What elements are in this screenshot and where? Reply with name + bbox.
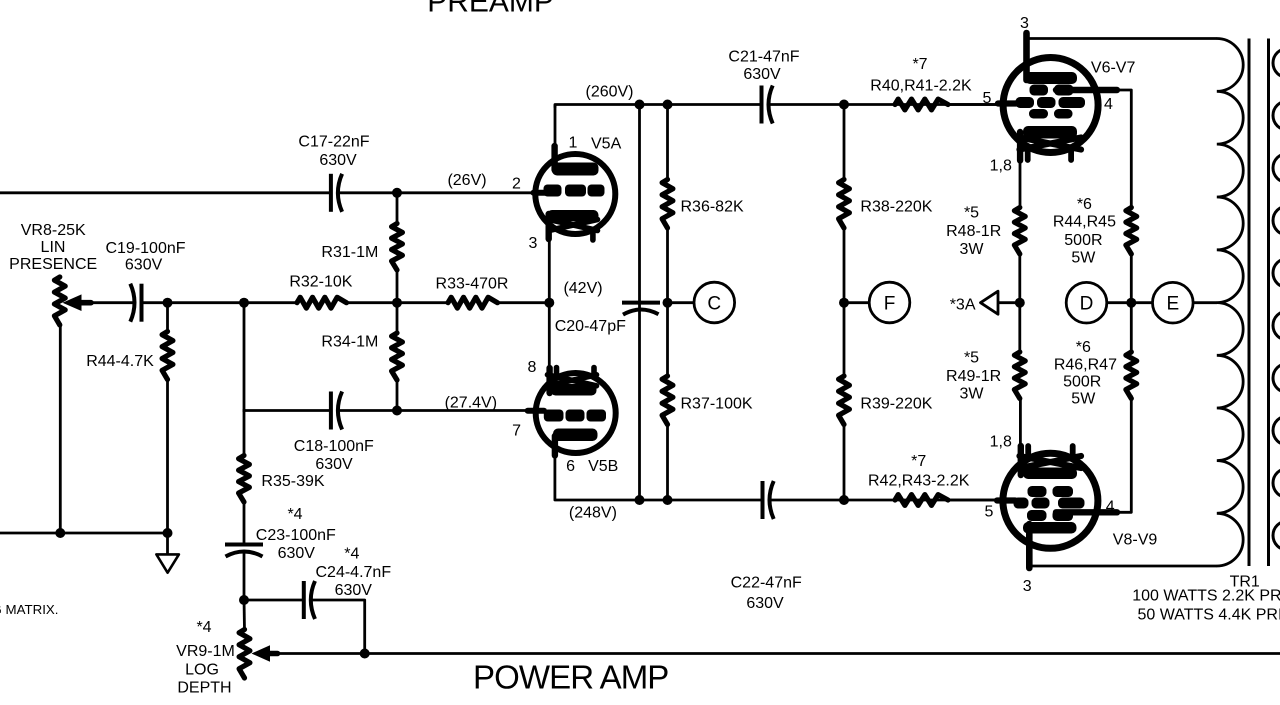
wire: V6V7 screen to rail x=1131 bbox=[1115, 90, 1131, 209]
svg-text:7: 7 bbox=[512, 422, 521, 439]
svg-text:C19-100nF: C19-100nF bbox=[105, 240, 185, 257]
svg-text:C23-100nF: C23-100nF bbox=[256, 527, 336, 544]
junction dot at R31 top node (397,193) bbox=[392, 188, 402, 198]
junction dot (667.5,302.7) bbox=[663, 298, 673, 308]
svg-text:630V: 630V bbox=[125, 257, 163, 274]
wire: E to transformer centre tap bbox=[1193, 301, 1217, 304]
svg-text:C: C bbox=[707, 293, 721, 314]
wire: F node stub bbox=[844, 301, 870, 304]
svg-text:F: F bbox=[884, 293, 896, 314]
svg-text:1,8: 1,8 bbox=[990, 158, 1012, 175]
wire: R44 down to ground bus bbox=[166, 378, 169, 534]
potentiometer VR8 25K LIN PRESENCE body bbox=[54, 277, 65, 325]
svg-text:630V: 630V bbox=[278, 545, 316, 562]
resistor R33-470R bbox=[448, 297, 498, 308]
svg-text:(42V): (42V) bbox=[563, 280, 602, 297]
wire: VR8 wiper to C19 bbox=[88, 301, 135, 304]
wire: 248V rail right of C22 bbox=[770, 499, 1002, 502]
junction dot (397,302.7) bbox=[392, 298, 402, 308]
junction dot (1019.8,302.7) bbox=[1015, 298, 1025, 308]
wire: 248V rail left of C22 bbox=[639, 499, 763, 502]
junction dot (364.7,653.5) bbox=[360, 649, 370, 659]
svg-text:R38-220K: R38-220K bbox=[860, 198, 932, 215]
svg-text:1: 1 bbox=[569, 135, 578, 152]
resistor R40,R41-2.2K bbox=[895, 99, 948, 110]
svg-text:R33-470R: R33-470R bbox=[436, 276, 509, 293]
pentode V6-V7 bbox=[998, 33, 1117, 161]
svg-text:R37-100K: R37-100K bbox=[681, 395, 753, 412]
svg-text:*4: *4 bbox=[344, 546, 359, 563]
resistor R44,R45-500R 5W bbox=[1126, 208, 1137, 255]
wire: R37 to 248V rail bbox=[666, 423, 669, 501]
triode V5A bbox=[534, 105, 616, 241]
svg-text:G MATRIX.: G MATRIX. bbox=[0, 602, 58, 617]
svg-text:4: 4 bbox=[1104, 96, 1113, 113]
wire: VR9 node to C24 bbox=[244, 599, 304, 602]
svg-text:PRESENCE: PRESENCE bbox=[9, 256, 97, 273]
resistor R38-220K bbox=[839, 180, 850, 229]
resistor R44-4.7K bbox=[162, 332, 173, 380]
wire: D to E through screen rail bbox=[1107, 301, 1153, 304]
resistor R39-220K bbox=[839, 376, 850, 425]
wire: R42 to V8V9 grid bbox=[948, 499, 999, 502]
resistor R35-39K bbox=[239, 456, 250, 503]
svg-text:R31-1M: R31-1M bbox=[321, 244, 378, 261]
junction dot (639.5,500) bbox=[635, 495, 645, 505]
svg-text:R35-39K: R35-39K bbox=[261, 473, 324, 490]
wire: vertical rail x=667.5 top bbox=[666, 105, 669, 182]
wire: R40 to V6V7 grid bbox=[948, 103, 1000, 106]
svg-text:(248V): (248V) bbox=[569, 505, 617, 522]
junction dot (667.5,104.5) bbox=[663, 100, 673, 110]
svg-text:VR8-25K: VR8-25K bbox=[21, 222, 86, 239]
svg-text:8: 8 bbox=[528, 359, 537, 376]
svg-text:C18-100nF: C18-100nF bbox=[294, 438, 374, 455]
svg-text:*3A: *3A bbox=[950, 297, 976, 314]
svg-text:V5A: V5A bbox=[591, 136, 622, 153]
svg-text:DEPTH: DEPTH bbox=[177, 680, 231, 697]
junction dot (844,302.7) bbox=[839, 298, 849, 308]
svg-text:(260V): (260V) bbox=[585, 84, 633, 101]
svg-text:5: 5 bbox=[985, 504, 994, 521]
svg-text:V6-V7: V6-V7 bbox=[1091, 59, 1136, 76]
junction dot (844,104.5) bbox=[839, 100, 849, 110]
svg-text:*7: *7 bbox=[911, 453, 926, 470]
svg-text:R44,R45: R44,R45 bbox=[1053, 214, 1116, 231]
svg-text:R49-1R: R49-1R bbox=[946, 368, 1001, 385]
capacitor C19 (100nF 630V) bbox=[140, 284, 144, 322]
node E circle bbox=[1153, 282, 1194, 323]
wire: V5A cathode down to bus bbox=[548, 238, 551, 304]
resistor R34-1M bbox=[392, 333, 403, 380]
wire: C23 to VR9 node bbox=[243, 552, 246, 602]
svg-text:3W: 3W bbox=[960, 386, 985, 403]
svg-text:*4: *4 bbox=[287, 506, 302, 523]
svg-text:*6: *6 bbox=[1077, 196, 1092, 213]
wire: VR9 wiper feedback wire to right edge bbox=[276, 652, 1280, 655]
wire: x=244 to C18 bbox=[244, 409, 331, 412]
capacitor C20 (47pF) bbox=[622, 301, 660, 305]
svg-text:630V: 630V bbox=[746, 595, 784, 612]
wire: ground bus (y=533) bbox=[0, 532, 168, 535]
junction dot (167.5,533) bbox=[163, 528, 173, 538]
svg-text:50 WATTS 4.4K PRI: 50 WATTS 4.4K PRI bbox=[1138, 607, 1280, 624]
wire: R38 to F node bbox=[843, 226, 846, 304]
wire: F node down to R39 bbox=[843, 301, 846, 378]
wire: V8V9 screen to rail x=1131 bbox=[1115, 396, 1131, 512]
svg-text:POWER AMP: POWER AMP bbox=[473, 659, 668, 696]
VR8 wiper arrow bbox=[63, 294, 82, 311]
capacitor C23 (100nF 630V) bbox=[225, 543, 263, 547]
junction dot (549.3,302.7) bbox=[544, 298, 554, 308]
svg-text:R44-4.7K: R44-4.7K bbox=[86, 353, 154, 370]
wire: V6V7 anode to transformer top bbox=[1027, 37, 1218, 40]
resistor R37-100K bbox=[662, 376, 673, 425]
resistor R46,R47-500R 5W bbox=[1126, 352, 1137, 399]
svg-text:5W: 5W bbox=[1071, 391, 1096, 408]
wire: V6V7 cathode down to R48 bbox=[1019, 159, 1022, 209]
svg-text:R32-10K: R32-10K bbox=[289, 274, 352, 291]
svg-text:630V: 630V bbox=[319, 152, 357, 169]
wire: VR8 bottom to ground bus bbox=[59, 323, 62, 533]
svg-text:E: E bbox=[1166, 294, 1179, 315]
node F circle bbox=[869, 282, 910, 323]
svg-text:3: 3 bbox=[1020, 15, 1029, 32]
wire: vertical rail x=639.5 bbox=[638, 105, 641, 501]
svg-text:(26V): (26V) bbox=[447, 172, 486, 189]
wire: R33 to V5A cathode node bbox=[498, 301, 554, 304]
svg-text:PREAMP: PREAMP bbox=[427, 0, 554, 19]
svg-text:C24-4.7nF: C24-4.7nF bbox=[316, 564, 392, 581]
junction dot (244,600) bbox=[239, 595, 249, 605]
capacitor C18 (100nF 630V) bbox=[329, 392, 333, 430]
wire: C node down to R37 bbox=[666, 301, 669, 378]
svg-text:3: 3 bbox=[529, 235, 538, 252]
triode V5B bbox=[528, 301, 616, 456]
svg-text:V5B: V5B bbox=[588, 458, 618, 475]
wire: bus down to C18 node (x=244) bbox=[243, 301, 246, 412]
wire: R39 to 248V rail bbox=[843, 423, 846, 501]
wire: vertical rail x=844 top bbox=[843, 105, 846, 182]
junction dot (667.5,500) bbox=[663, 495, 673, 505]
svg-text:*4: *4 bbox=[196, 619, 211, 636]
capacitor C21 (47nF 630V) bbox=[760, 86, 764, 124]
svg-text:C22-47nF: C22-47nF bbox=[731, 575, 802, 592]
resistor R36-82K bbox=[662, 180, 673, 229]
svg-text:3: 3 bbox=[1023, 578, 1032, 595]
wire: V8V9 anode to transformer bottom bbox=[1029, 565, 1217, 568]
wire: bus(167.5) down to R44 bbox=[166, 301, 169, 333]
capacitor C17 (22nF 630V) bbox=[329, 174, 333, 212]
svg-text:4: 4 bbox=[1106, 499, 1115, 516]
svg-text:1,8: 1,8 bbox=[990, 434, 1012, 451]
wire: top-left input wire (y=193) to C17 bbox=[0, 191, 331, 194]
transformer TR1 primary winding bbox=[1217, 39, 1243, 567]
transformer TR1 secondary winding bbox=[1273, 49, 1280, 78]
potentiometer VR9 1M LOG DEPTH body bbox=[239, 630, 250, 679]
svg-text:6: 6 bbox=[566, 458, 575, 475]
svg-text:C20-47pF: C20-47pF bbox=[555, 318, 626, 335]
wire: node(397,193) down to R31 bbox=[396, 193, 399, 225]
svg-text:3W: 3W bbox=[960, 241, 985, 258]
svg-text:100 WATTS 2.2K PRI: 100 WATTS 2.2K PRI bbox=[1132, 588, 1280, 605]
wire: V8V9 cathode up to R49 bbox=[1019, 397, 1022, 448]
svg-text:*7: *7 bbox=[912, 56, 927, 73]
wire: 260V rail left of C21 bbox=[555, 105, 762, 108]
wire: C24 to corner and down bbox=[311, 600, 365, 654]
svg-text:630V: 630V bbox=[743, 66, 781, 83]
VR9 wiper arrow bbox=[252, 645, 271, 662]
resistor R42,R43-2.2K bbox=[895, 495, 948, 506]
junction dot (639.5,104.5) bbox=[635, 100, 645, 110]
wire: R36 to C node bbox=[666, 226, 669, 304]
wire: R32 to R33 bbox=[347, 301, 449, 304]
svg-text:*6: *6 bbox=[1076, 339, 1091, 356]
resistor R49-1R 3W bbox=[1014, 352, 1025, 399]
capacitor C24 (4.7nF 630V) bbox=[302, 581, 306, 619]
svg-text:R39-220K: R39-220K bbox=[860, 395, 932, 412]
wire: R44R45 to D node bbox=[1130, 252, 1133, 354]
svg-text:630V: 630V bbox=[315, 456, 353, 473]
wire: bus down to R34 bbox=[396, 301, 399, 335]
svg-text:5W: 5W bbox=[1071, 250, 1096, 267]
resistor R32-10K bbox=[297, 297, 347, 308]
svg-text:C21-47nF: C21-47nF bbox=[728, 48, 799, 65]
svg-text:(27.4V): (27.4V) bbox=[445, 395, 497, 412]
wire: ground stub bbox=[166, 533, 169, 555]
wire: V5B anode down and right to 248V rail bbox=[555, 453, 641, 500]
resistor R31-1M bbox=[392, 224, 403, 271]
wire: R31 to bus bbox=[396, 268, 399, 304]
ground symbol bbox=[156, 554, 179, 572]
transformer core bar 1 bbox=[1248, 39, 1251, 567]
svg-text:500R: 500R bbox=[1063, 374, 1101, 391]
wire: C node stub bbox=[668, 301, 695, 304]
wire: C19 to R32 bbox=[142, 301, 298, 304]
junction dot (61,533) bbox=[55, 528, 65, 538]
wire: 260V rail right of C21 bbox=[769, 103, 1002, 106]
svg-text:R36-82K: R36-82K bbox=[681, 198, 744, 215]
junction dot (844,500) bbox=[839, 495, 849, 505]
svg-text:R46,R47: R46,R47 bbox=[1054, 357, 1117, 374]
svg-text:500R: 500R bbox=[1064, 232, 1102, 249]
node C circle bbox=[694, 282, 735, 323]
wire: C18 node down to R35 bbox=[243, 409, 246, 457]
svg-text:D: D bbox=[1080, 294, 1094, 315]
svg-text:2: 2 bbox=[512, 176, 521, 193]
junction dot (1131.3,302.7) bbox=[1126, 298, 1136, 308]
pentode V8-V9 bbox=[997, 446, 1117, 568]
svg-text:630V: 630V bbox=[335, 582, 373, 599]
capacitor C22 (47nF 630V) bbox=[761, 481, 765, 519]
wire: C17 to V5A grid pin 2 bbox=[338, 191, 535, 194]
junction dot (244,302.7) bbox=[239, 298, 249, 308]
svg-text:R40,R41-2.2K: R40,R41-2.2K bbox=[870, 78, 972, 95]
wire: R48 to 3A node bbox=[1018, 252, 1021, 354]
junction dot (167.5,302.7) bbox=[163, 298, 173, 308]
wire: VR9 top lead bbox=[243, 598, 246, 631]
svg-text:R48-1R: R48-1R bbox=[946, 223, 1001, 240]
arrow *3A (feedback tap) bbox=[981, 291, 999, 314]
svg-text:R34-1M: R34-1M bbox=[321, 334, 378, 351]
svg-text:*5: *5 bbox=[964, 349, 979, 366]
svg-text:R42,R43-2.2K: R42,R43-2.2K bbox=[868, 473, 970, 490]
junction dot (397,410.5) bbox=[392, 406, 402, 416]
svg-text:*5: *5 bbox=[964, 205, 979, 222]
svg-text:VR9-1M: VR9-1M bbox=[176, 643, 235, 660]
node D circle bbox=[1066, 282, 1107, 323]
svg-text:LIN: LIN bbox=[41, 239, 66, 256]
svg-text:V8-V9: V8-V9 bbox=[1113, 532, 1158, 549]
wire: R34 to C18 wire bbox=[396, 378, 399, 411]
svg-text:C17-22nF: C17-22nF bbox=[298, 134, 369, 151]
resistor R48-1R 3W bbox=[1014, 208, 1025, 255]
wire: R35 to C23 bbox=[243, 500, 246, 545]
wire: C18 to V5B grid pin 7 bbox=[338, 409, 529, 412]
transformer core bar 2 bbox=[1267, 39, 1270, 567]
svg-text:LOG: LOG bbox=[185, 662, 219, 679]
